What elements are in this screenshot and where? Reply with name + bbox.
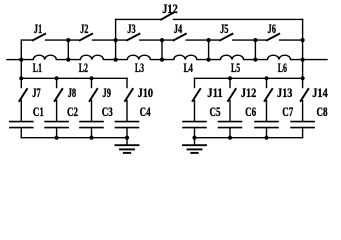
wire: left bank top bus [21, 77, 127, 79]
inductor L5 [209, 55, 256, 59]
svg-text:L4: L4 [184, 60, 194, 75]
capacitor C5 [183, 121, 206, 123]
wire: right bank top bus [195, 77, 303, 79]
switch J1 blade [33, 34, 45, 41]
switch J11 [194, 78, 196, 87]
switch J6 blade [267, 34, 279, 41]
node: main bus junction dots [19, 58, 23, 62]
node: switch row junction dots [66, 38, 70, 42]
svg-text:J13: J13 [277, 85, 293, 100]
svg-text:J10: J10 [138, 85, 153, 100]
svg-text:L6: L6 [278, 60, 288, 75]
ground right bank [194, 138, 196, 146]
capacitor C1 [10, 121, 33, 123]
svg-text:L2: L2 [79, 60, 88, 75]
switch J4 blade [174, 34, 186, 41]
switch J12b [229, 78, 231, 87]
inductor L4 [162, 55, 209, 59]
svg-text:J14: J14 [312, 85, 328, 100]
svg-text:L5: L5 [231, 60, 241, 75]
inductor L2 [68, 55, 115, 59]
capacitor C7 [255, 121, 278, 123]
switch J13 [266, 78, 268, 87]
svg-text:C3: C3 [102, 104, 113, 119]
svg-text:C1: C1 [33, 104, 44, 119]
svg-text:J12: J12 [241, 85, 256, 100]
svg-text:J9: J9 [103, 85, 112, 100]
capacitor C2 [45, 121, 68, 123]
svg-text:J2: J2 [80, 21, 88, 36]
svg-text:C5: C5 [210, 104, 221, 119]
svg-text:J6: J6 [268, 21, 277, 36]
svg-text:C4: C4 [140, 104, 151, 119]
switch J5 blade [220, 34, 232, 41]
wire: left bank feeder from main bus [20, 60, 22, 79]
capacitor C4 [116, 121, 139, 123]
wire: left bank bottom bus [21, 137, 127, 139]
inductor L3 [116, 55, 162, 59]
wire: J12 bypass top line right segment [174, 18, 303, 20]
wire: vertical riser x4 [161, 40, 163, 60]
wire: vertical riser x3 [115, 40, 117, 60]
wire: right bank bottom bus [195, 137, 303, 139]
ground left bank [126, 138, 128, 146]
inductor L6 [255, 55, 302, 59]
node: right bottom bus dots [192, 136, 196, 140]
switch J7 [20, 78, 22, 87]
svg-text:J4: J4 [174, 21, 183, 36]
svg-text:J1: J1 [34, 21, 42, 36]
svg-text:L3: L3 [135, 60, 145, 75]
node: right bank top bus dots [228, 76, 232, 80]
switch J14 [302, 78, 304, 87]
switch J9 [91, 78, 93, 87]
switch J12 blade [161, 13, 173, 20]
wire: main bus left stub [7, 59, 21, 61]
svg-text:C6: C6 [245, 104, 256, 119]
wire: vertical riser x7 [302, 40, 304, 60]
svg-text:C8: C8 [317, 104, 328, 119]
capacitor C3 [80, 121, 103, 123]
switch J8 [56, 78, 58, 87]
wire: main bus right stub [303, 59, 327, 61]
svg-text:L1: L1 [33, 60, 42, 75]
wire: vertical riser x5 [208, 40, 210, 60]
svg-text:C7: C7 [282, 104, 293, 119]
svg-text:J8: J8 [68, 85, 77, 100]
switch J10 [126, 78, 128, 87]
wire: J12 bypass top line left segment [116, 18, 162, 20]
wire: switch row segment with switch J5 [209, 39, 256, 41]
svg-text:J5: J5 [220, 21, 229, 36]
capacitor C8 [291, 121, 314, 123]
capacitor C6 [219, 121, 242, 123]
wire: switch row segment with switch J6 [255, 39, 302, 41]
svg-text:J12: J12 [162, 1, 178, 16]
svg-text:J11: J11 [207, 85, 222, 100]
node: left bank top bus dots [19, 76, 23, 80]
node: left bottom bus dots [55, 136, 59, 140]
wire: switch row segment with switch J4 [162, 39, 209, 41]
wire: right bank feeder from main bus [302, 60, 304, 79]
wire: vertical riser x2 [67, 40, 69, 60]
wire: J12 right vertical drop [302, 19, 304, 40]
wire: vertical riser x6 [254, 40, 256, 60]
wire: switch row segment with switch J3 [116, 39, 162, 41]
wire: J12 left vertical drop [115, 19, 117, 40]
svg-text:J3: J3 [127, 21, 136, 36]
switch J2 blade [80, 34, 92, 41]
inductor L1 [21, 55, 68, 59]
wire: switch row segment with switch J1 [21, 40, 68, 60]
svg-text:C2: C2 [67, 104, 78, 119]
svg-text:J7: J7 [32, 85, 41, 100]
wire: switch row segment with switch J2 [68, 39, 115, 41]
switch J3 blade [127, 34, 139, 41]
